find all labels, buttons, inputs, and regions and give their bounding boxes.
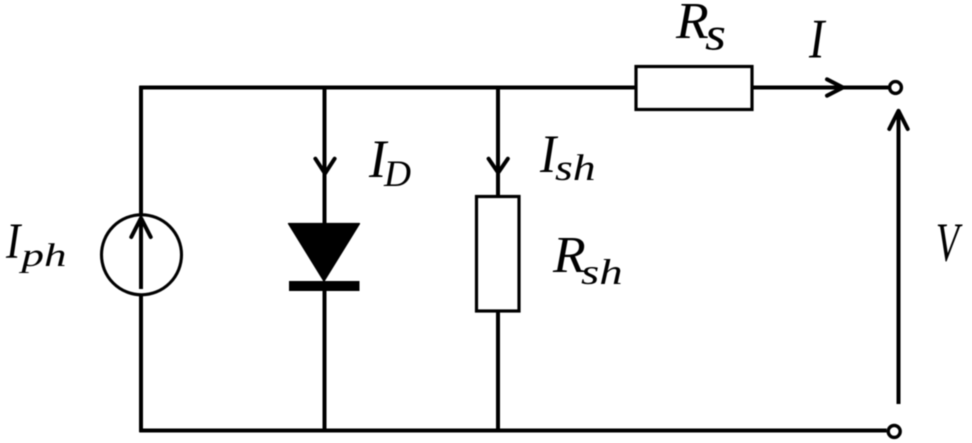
label Iph — [5, 214, 66, 274]
diode D triangle — [289, 224, 360, 281]
wire V measurement line — [897, 113, 901, 404]
arrowhead I output current — [827, 79, 843, 95]
svg-text:D: D — [383, 154, 411, 195]
terminal node bottom (negative) — [888, 425, 900, 437]
wire Rsh branch upper — [496, 86, 500, 197]
current source Iph circle — [102, 215, 182, 295]
arrowhead ID on diode branch — [315, 159, 334, 174]
svg-text:R: R — [675, 0, 709, 50]
wire left rail lower — [139, 295, 143, 432]
wire diode branch lower — [323, 290, 327, 432]
wire left rail upper — [139, 86, 143, 216]
diode D cathode bar — [289, 281, 360, 291]
wire Rsh branch lower — [496, 311, 500, 433]
wire bottom bus — [139, 429, 886, 433]
wire diode branch upper — [323, 86, 327, 224]
svg-text:sh: sh — [581, 253, 623, 293]
svg-text:s: s — [705, 8, 726, 60]
wire top bus right segment (Rs to terminal) — [752, 86, 888, 90]
label I output — [808, 8, 827, 70]
svg-text:sh: sh — [555, 148, 596, 189]
label Ish — [539, 125, 596, 189]
label Rsh — [552, 227, 623, 293]
svg-text:ph: ph — [18, 238, 66, 274]
svg-text:I: I — [5, 214, 22, 270]
current source arrowhead — [131, 218, 150, 237]
wire top bus left segment — [139, 86, 636, 90]
terminal node top (positive) — [890, 82, 902, 94]
arrowhead V (voltage polarity, up) — [889, 111, 907, 129]
label ID — [368, 130, 411, 195]
arrowhead Ish on Rsh branch — [489, 159, 508, 173]
label V — [936, 213, 963, 274]
resistor Rs body — [636, 67, 752, 110]
svg-text:V: V — [936, 213, 963, 274]
resistor Rsh body — [477, 197, 520, 312]
svg-text:I: I — [808, 8, 827, 70]
current source arrow shaft — [139, 222, 143, 289]
label Rs — [675, 0, 726, 59]
